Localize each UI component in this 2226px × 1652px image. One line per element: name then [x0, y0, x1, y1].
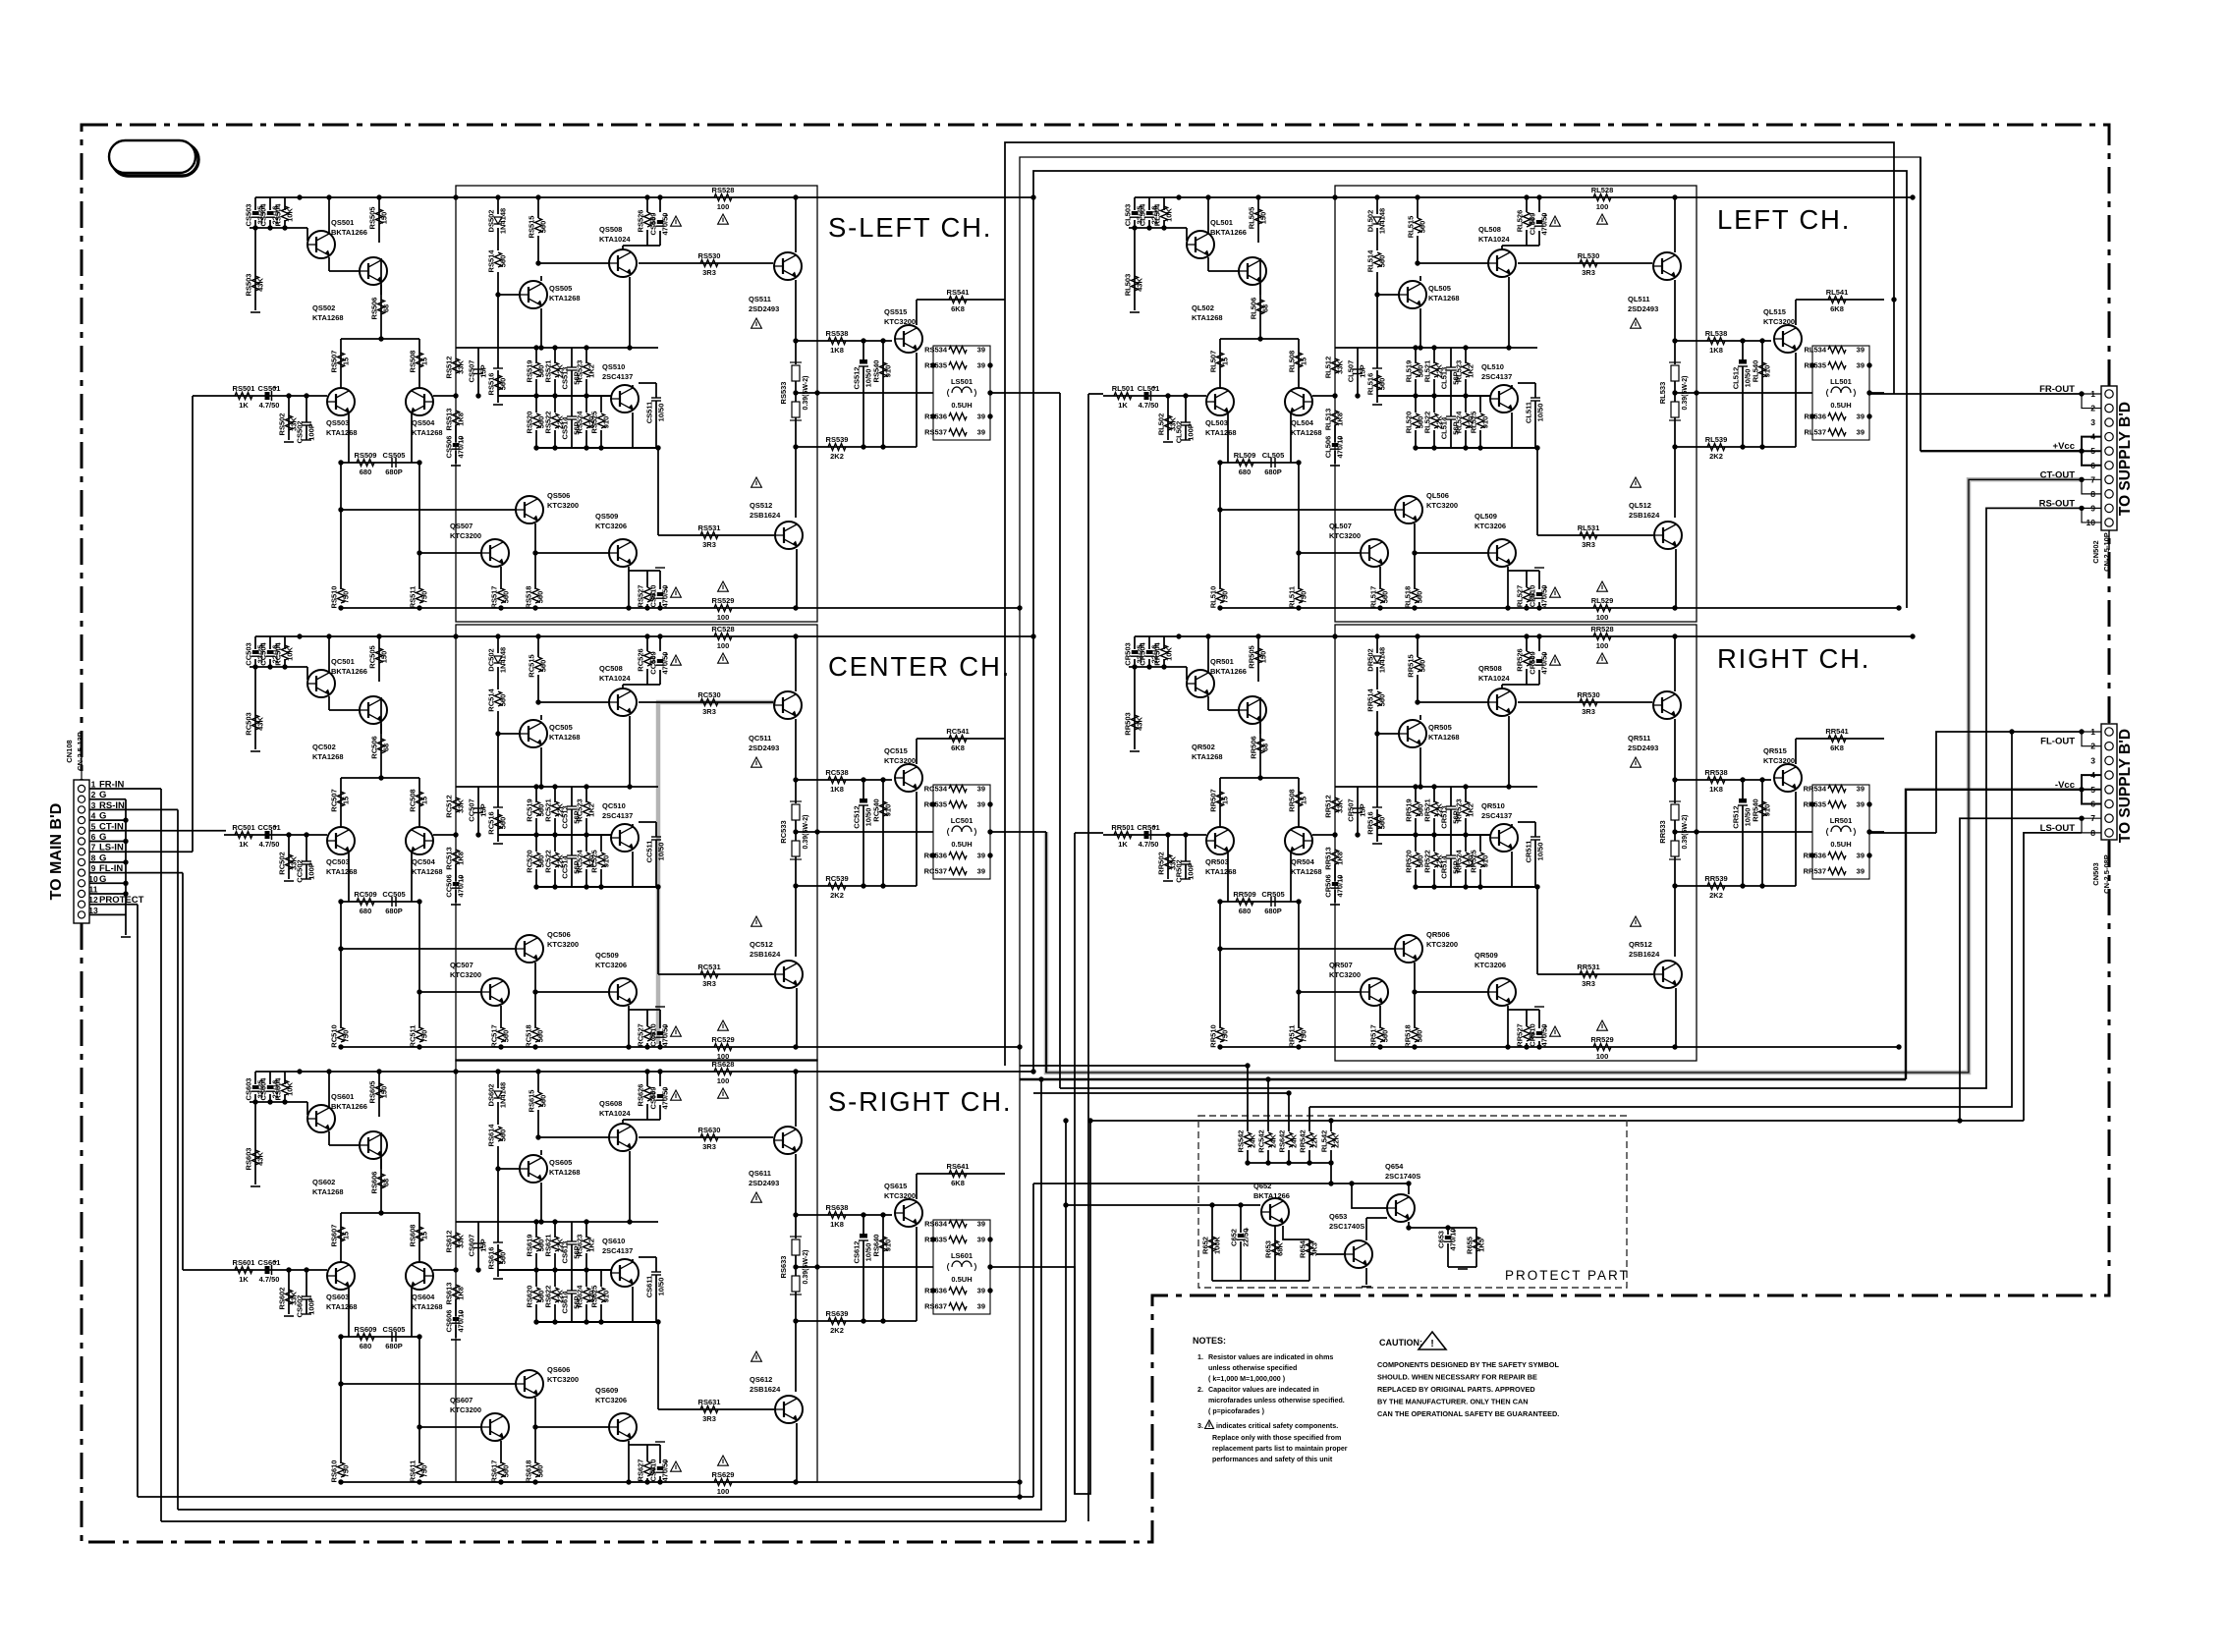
resistor RL523 [1463, 362, 1470, 377]
resistor RS622 [552, 1288, 559, 1302]
wire lower bus d [1309, 732, 2012, 1107]
svg-text:R655: R655 [1466, 1237, 1475, 1254]
svg-text:100P: 100P [307, 1297, 316, 1315]
resistor R654 [1307, 1240, 1313, 1255]
capacitor CC507 [473, 807, 483, 809]
svg-text:CR501: CR501 [1137, 823, 1159, 832]
svg-text:QS604: QS604 [412, 1293, 435, 1301]
resistor RR525 [1477, 853, 1484, 867]
wire bottom bus 3 [161, 1520, 1066, 1522]
svg-text:QL502: QL502 [1192, 303, 1214, 312]
svg-text:CS605: CS605 [383, 1325, 406, 1334]
resistor RS634 [949, 1221, 967, 1228]
svg-text:470/50: 470/50 [661, 213, 670, 236]
safety symbol [751, 757, 762, 767]
svg-text:RR533: RR533 [1658, 820, 1667, 843]
svg-text:RC503: RC503 [245, 712, 253, 735]
ground [250, 750, 260, 752]
transistor QC504 [406, 827, 433, 854]
resistor RR536 [1828, 853, 1846, 859]
svg-text:56P: 56P [573, 1295, 582, 1308]
svg-text:BKTA1266: BKTA1266 [1210, 667, 1247, 676]
svg-text:RC521: RC521 [544, 798, 553, 821]
svg-text:RS634: RS634 [924, 1220, 948, 1229]
capacitor CS606 [453, 1317, 459, 1321]
ground [1163, 441, 1173, 443]
svg-text:3R3: 3R3 [702, 1142, 716, 1151]
svg-text:3R3: 3R3 [1582, 268, 1595, 277]
svg-text:750: 750 [342, 591, 351, 604]
svg-text:33K: 33K [1336, 799, 1345, 813]
svg-text:CS607: CS607 [468, 1235, 476, 1257]
resistor RL516 [1374, 375, 1381, 390]
transistor Q654 [1387, 1194, 1415, 1222]
svg-text:560: 560 [1381, 1030, 1390, 1043]
svg-text:KTA1268: KTA1268 [1192, 752, 1223, 761]
capacitor C653 [1445, 1236, 1451, 1239]
wire protect input b [1066, 1204, 1260, 1206]
safety symbol [1597, 581, 1608, 591]
wire top rail [255, 1071, 1033, 1073]
svg-text:560: 560 [1416, 1030, 1424, 1043]
svg-text:2SB1624: 2SB1624 [1629, 511, 1660, 520]
svg-text:150: 150 [380, 212, 389, 225]
resistor RS536 [949, 413, 967, 420]
svg-text:RC510: RC510 [330, 1024, 339, 1047]
capacitor CS604 [267, 1085, 273, 1089]
transistor QL509 [1488, 539, 1516, 567]
wire [341, 948, 516, 950]
svg-text:RL536: RL536 [1804, 413, 1826, 421]
svg-text:1K8: 1K8 [1336, 852, 1345, 865]
svg-text:QR509: QR509 [1475, 951, 1498, 960]
diode DS502 [494, 217, 502, 224]
svg-text:RL514: RL514 [1366, 249, 1375, 272]
wire [1358, 786, 1537, 788]
svg-text:C652: C652 [1230, 1229, 1239, 1246]
resistor RC534 [949, 786, 967, 793]
svg-text:560: 560 [1378, 694, 1387, 707]
wire [1376, 636, 1378, 653]
resistor RS521 [552, 362, 559, 377]
svg-text:750: 750 [420, 1030, 429, 1043]
safety symbol [718, 214, 729, 224]
svg-text:LS501: LS501 [951, 377, 973, 386]
svg-text:RR511: RR511 [1288, 1025, 1297, 1048]
capacitor CR502 [1185, 852, 1187, 861]
svg-text:33K: 33K [1336, 360, 1345, 374]
svg-text:QC504: QC504 [412, 857, 436, 866]
svg-text:3R3: 3R3 [702, 1414, 716, 1423]
capacitor CL512 [1742, 341, 1744, 359]
ground [1130, 750, 1140, 752]
svg-text:QL505: QL505 [1428, 284, 1451, 293]
svg-text:RR502: RR502 [1157, 852, 1166, 874]
capacitor CC511 [655, 822, 657, 837]
svg-text:Capacitor values are indecated: Capacitor values are indecated in [1208, 1386, 1319, 1394]
svg-text:performances and safety of thi: performances and safety of this unit [1212, 1456, 1333, 1463]
resistor RR512 [1332, 798, 1339, 812]
svg-text:RR542: RR542 [1299, 1129, 1308, 1152]
svg-text:100P: 100P [1187, 862, 1196, 880]
wire CN108 dash leads [81, 756, 83, 780]
wire [1508, 1009, 1539, 1011]
svg-text:24K: 24K [1249, 1134, 1257, 1148]
resistor RL527 [1524, 587, 1530, 602]
wire [1335, 347, 1358, 349]
resistor RS638 [828, 1212, 846, 1219]
wire top bus 2 [1020, 157, 1920, 1497]
transistor QS601 [307, 1105, 335, 1132]
resistor RL539 [1707, 444, 1725, 451]
wire output stage [795, 636, 797, 691]
svg-text:RC502: RC502 [278, 852, 287, 874]
svg-text:2SC4137: 2SC4137 [1481, 811, 1512, 820]
resistor RL524 [1463, 413, 1470, 428]
svg-text:KTA1268: KTA1268 [549, 733, 581, 742]
svg-text:RS514: RS514 [487, 249, 496, 273]
wire lower bus e [1090, 1120, 2024, 1122]
resistor RL512 [1332, 358, 1339, 373]
svg-text:3.: 3. [1197, 1422, 1203, 1430]
svg-text:RC507: RC507 [330, 789, 339, 811]
svg-text:QL510: QL510 [1481, 362, 1504, 371]
wire [1358, 347, 1537, 349]
capacitor CR504 [1146, 650, 1152, 654]
svg-text:CS510: CS510 [649, 585, 658, 608]
svg-text:QR506: QR506 [1426, 930, 1450, 939]
resistor RC520 [533, 853, 540, 867]
wire [534, 523, 536, 589]
svg-text:RS519: RS519 [526, 360, 534, 383]
wire [1675, 340, 1771, 342]
resistor RC542 [1265, 1132, 1272, 1147]
resistor RL515 [1415, 218, 1421, 233]
coil group bracket [933, 1220, 990, 1314]
svg-text:CR509: CR509 [1529, 651, 1537, 674]
resistor RC504 [282, 645, 289, 660]
svg-text:RL517: RL517 [1369, 586, 1378, 609]
wire CN503 dash leads [2108, 703, 2110, 724]
svg-text:RL522: RL522 [1423, 412, 1432, 434]
svg-text:QR510: QR510 [1481, 801, 1505, 810]
resistor RR501 [1114, 832, 1132, 839]
ground [493, 843, 503, 845]
capacitor CC514 [571, 835, 573, 855]
svg-text:CC509: CC509 [649, 651, 658, 674]
svg-text:CL505: CL505 [1262, 451, 1285, 460]
svg-text:RS626: RS626 [637, 1084, 645, 1107]
svg-text:CN-2.5-13P: CN-2.5-13P [76, 732, 84, 771]
resistor RS621 [552, 1237, 559, 1251]
resistor RL542 [1328, 1132, 1335, 1147]
safety symbol [1550, 1026, 1561, 1036]
svg-text:RC517: RC517 [490, 1024, 499, 1047]
svg-text:RS613: RS613 [445, 1283, 454, 1305]
transistor QR509 [1488, 978, 1516, 1006]
logo box [112, 143, 198, 176]
svg-text:( p=picofarades ): ( p=picofarades ) [1208, 1407, 1265, 1415]
resistor RS511 [417, 588, 423, 603]
ground [1372, 843, 1382, 845]
svg-text:RL541: RL541 [1826, 288, 1849, 297]
wire [348, 413, 350, 463]
svg-text:1K2: 1K2 [587, 803, 596, 817]
resistor RS525 [598, 413, 605, 428]
transistor QL508 [1488, 249, 1516, 277]
svg-text:RS640: RS640 [872, 1235, 881, 1257]
svg-text:KTC3200: KTC3200 [1329, 970, 1361, 979]
transistor QS515 [895, 325, 922, 353]
resistor RS601 [235, 1267, 252, 1274]
transistor QC502 [360, 696, 387, 724]
svg-text:470/50: 470/50 [1540, 652, 1549, 675]
svg-text:560: 560 [1381, 591, 1390, 604]
svg-text:Replace only with those specif: Replace only with those specified from [1212, 1434, 1341, 1442]
resistor RS526 [644, 212, 651, 227]
svg-text:910: 910 [602, 1291, 611, 1303]
svg-text:LEFT CH.: LEFT CH. [1717, 204, 1851, 235]
svg-text:2K2: 2K2 [1709, 452, 1723, 461]
wire [478, 786, 658, 788]
svg-text:RC529: RC529 [711, 1035, 734, 1044]
resistor RS607 [338, 1227, 345, 1241]
transistor QS602 [360, 1131, 387, 1159]
svg-text:CS611: CS611 [645, 1276, 654, 1298]
svg-text:QS606: QS606 [547, 1365, 570, 1374]
svg-text:33K: 33K [457, 1235, 466, 1248]
wire output [796, 1266, 933, 1268]
svg-text:KTC3206: KTC3206 [1475, 961, 1506, 969]
transistor QC503 [327, 827, 355, 854]
wire protect feeds [1247, 1066, 1249, 1131]
wire output [1675, 392, 1812, 394]
svg-text:RS533: RS533 [779, 382, 788, 405]
svg-text:15: 15 [1221, 358, 1230, 365]
svg-text:RL521: RL521 [1423, 360, 1432, 383]
outer dash-dot board border [82, 125, 2109, 1542]
wire feedback loop [456, 625, 817, 1061]
resistor RC515 [535, 657, 542, 672]
wire pin brackets CN502 [2082, 394, 2101, 409]
resistor RS609 [357, 1334, 374, 1341]
transistor QR503 [1206, 827, 1234, 854]
svg-text:RL515: RL515 [1407, 216, 1416, 239]
svg-text:470/50: 470/50 [1540, 585, 1549, 608]
svg-text:CR512: CR512 [1732, 805, 1741, 828]
wire feedback node [433, 395, 456, 397]
svg-text:100: 100 [1596, 613, 1609, 622]
svg-text:RL503: RL503 [1124, 274, 1133, 297]
resistor RS510 [338, 588, 345, 603]
resistor R652 [1209, 1237, 1216, 1251]
svg-text:BKTA1266: BKTA1266 [1253, 1191, 1290, 1200]
resistor RC510 [338, 1027, 345, 1042]
wire [1508, 277, 1510, 348]
svg-text:QR507: QR507 [1329, 961, 1353, 969]
capacitor CS513 [571, 348, 573, 367]
resistor RC516 [495, 814, 502, 829]
svg-text:RR526: RR526 [1516, 648, 1525, 671]
resistor RS637 [949, 1303, 967, 1310]
svg-text:150: 150 [1259, 651, 1268, 664]
svg-text:RS512: RS512 [445, 357, 454, 379]
svg-text:15: 15 [420, 1232, 429, 1239]
wire feedback node [433, 1269, 456, 1271]
svg-text:S-RIGHT CH.: S-RIGHT CH. [828, 1086, 1012, 1117]
wire bias cluster [254, 636, 256, 649]
wire LS-OUT link [1005, 1121, 1090, 1494]
svg-text:39: 39 [977, 867, 985, 876]
svg-text:KTC3200: KTC3200 [1763, 317, 1795, 326]
capacitor CL509 [1536, 220, 1542, 224]
svg-text:2.: 2. [1197, 1386, 1203, 1394]
svg-text:S-LEFT CH.: S-LEFT CH. [828, 212, 992, 243]
resistor RC531 [700, 971, 718, 978]
svg-text:56P: 56P [573, 421, 582, 434]
svg-text:QR502: QR502 [1192, 743, 1215, 751]
svg-text:RC518: RC518 [525, 1024, 533, 1047]
resistor RR518 [1412, 1027, 1419, 1042]
svg-text:39: 39 [977, 1220, 985, 1229]
transistor QS608 [609, 1124, 637, 1151]
capacitor CS607 [473, 1242, 483, 1244]
wire [646, 636, 648, 651]
svg-text:QC505: QC505 [549, 723, 573, 732]
resistor RC512 [453, 798, 460, 812]
resistor RR539 [1707, 883, 1725, 890]
svg-text:TO SUPPLY B'D: TO SUPPLY B'D [2117, 402, 2134, 516]
resistor RC539 [828, 883, 846, 890]
svg-text:QL511: QL511 [1628, 295, 1650, 303]
svg-text:RL525: RL525 [1470, 412, 1478, 434]
svg-text:LC501: LC501 [951, 816, 974, 825]
svg-text:KTA1268: KTA1268 [1291, 428, 1322, 437]
svg-text:CS511: CS511 [645, 402, 654, 424]
capacitor CS501 [265, 392, 270, 400]
wire LS-IN [89, 851, 193, 853]
svg-text:CR504: CR504 [1139, 642, 1147, 666]
svg-text:RS637: RS637 [924, 1302, 947, 1311]
svg-text:470/10: 470/10 [457, 875, 466, 898]
svg-text:10/50: 10/50 [657, 1278, 666, 1296]
svg-text:CL504: CL504 [1139, 203, 1147, 226]
svg-text:KTC3206: KTC3206 [595, 522, 627, 530]
svg-text:100P: 100P [1187, 423, 1196, 441]
svg-text:RL526: RL526 [1516, 210, 1525, 233]
svg-text:RL512: RL512 [1324, 357, 1333, 379]
svg-text:CS505: CS505 [383, 451, 406, 460]
capacitor CC502 [306, 852, 307, 861]
svg-text:RC534: RC534 [924, 785, 948, 794]
capacitor CS514 [571, 396, 573, 416]
wire [629, 277, 631, 348]
resistor RR516 [1374, 814, 1381, 829]
safety symbol [718, 653, 729, 663]
capacitor CR501 [1144, 831, 1149, 839]
svg-text:RL531: RL531 [1578, 523, 1600, 532]
svg-text:CC511: CC511 [645, 841, 654, 863]
resistor RL519 [1413, 362, 1419, 377]
svg-text:RC542: RC542 [1257, 1129, 1266, 1152]
caution triangle [1419, 1332, 1446, 1349]
resistor RL535 [1828, 362, 1846, 369]
svg-text:CL503: CL503 [1124, 204, 1133, 227]
svg-text:RS510: RS510 [330, 586, 339, 609]
capacitor CR506 [1332, 882, 1338, 886]
svg-text:RL528: RL528 [1591, 186, 1614, 194]
wire pin brackets CN503 [2082, 732, 2101, 746]
capacitor CS509 [657, 220, 663, 224]
svg-text:2SD2493: 2SD2493 [749, 304, 779, 313]
transistor QC511 [774, 691, 802, 719]
resistor RS626 [644, 1086, 651, 1101]
svg-text:10K: 10K [1165, 208, 1174, 222]
resistor RS502 [286, 415, 293, 430]
svg-text:FL-OUT: FL-OUT [2040, 737, 2075, 747]
svg-text:KTA1024: KTA1024 [599, 674, 631, 683]
svg-text:560: 560 [539, 1095, 548, 1108]
resistor RL509 [1236, 460, 1253, 467]
svg-text:RC501: RC501 [232, 823, 254, 832]
svg-text:680: 680 [1239, 468, 1252, 476]
svg-text:RR529: RR529 [1590, 1035, 1613, 1044]
wire RS-OUT link [1060, 508, 2082, 1088]
svg-text:43K: 43K [1136, 717, 1144, 731]
resistor RC501 [235, 832, 252, 839]
svg-text:RS539: RS539 [826, 435, 849, 444]
svg-text:QL508: QL508 [1478, 225, 1501, 234]
svg-text:100: 100 [717, 1076, 730, 1085]
svg-text:KTA1268: KTA1268 [1205, 428, 1237, 437]
svg-text:910: 910 [884, 1239, 893, 1252]
safety symbol [718, 581, 729, 591]
svg-text:RS508: RS508 [409, 351, 417, 373]
wire feedback loop [1335, 625, 1697, 1061]
safety symbol [1597, 653, 1608, 663]
wire [796, 1214, 892, 1216]
transistor QS610 [611, 1259, 639, 1287]
wire [1508, 570, 1539, 572]
svg-text:RL511: RL511 [1288, 586, 1297, 608]
resistor RS640 [880, 1237, 887, 1251]
svg-text:unless otherwise specified: unless otherwise specified [1208, 1364, 1297, 1372]
wire [796, 779, 892, 781]
resistor RS620 [533, 1288, 540, 1302]
svg-text:910: 910 [602, 855, 611, 868]
svg-text:1K2: 1K2 [587, 1239, 596, 1252]
safety symbol [1597, 1020, 1608, 1030]
svg-text:RR501: RR501 [1111, 823, 1134, 832]
wire top rail [255, 196, 1033, 198]
svg-text:CC514: CC514 [561, 855, 570, 879]
wire feedback loop [456, 1060, 817, 1482]
svg-text:680P: 680P [385, 907, 403, 915]
resistor RC527 [644, 1026, 651, 1041]
svg-text:QC507: QC507 [450, 961, 473, 969]
capacitor CL502 [1185, 413, 1187, 422]
capacitor CS614 [571, 1270, 573, 1291]
safety symbol [1205, 1420, 1214, 1429]
svg-text:RC513: RC513 [445, 847, 454, 869]
resistor RS516 [495, 375, 502, 390]
resistor RS512 [453, 358, 460, 373]
resistor RR511 [1296, 1027, 1303, 1042]
transistor QL502 [1239, 257, 1266, 285]
transistor QL510 [1490, 385, 1518, 413]
resistor RS636 [949, 1288, 967, 1294]
svg-text:KTC3200: KTC3200 [1329, 531, 1361, 540]
